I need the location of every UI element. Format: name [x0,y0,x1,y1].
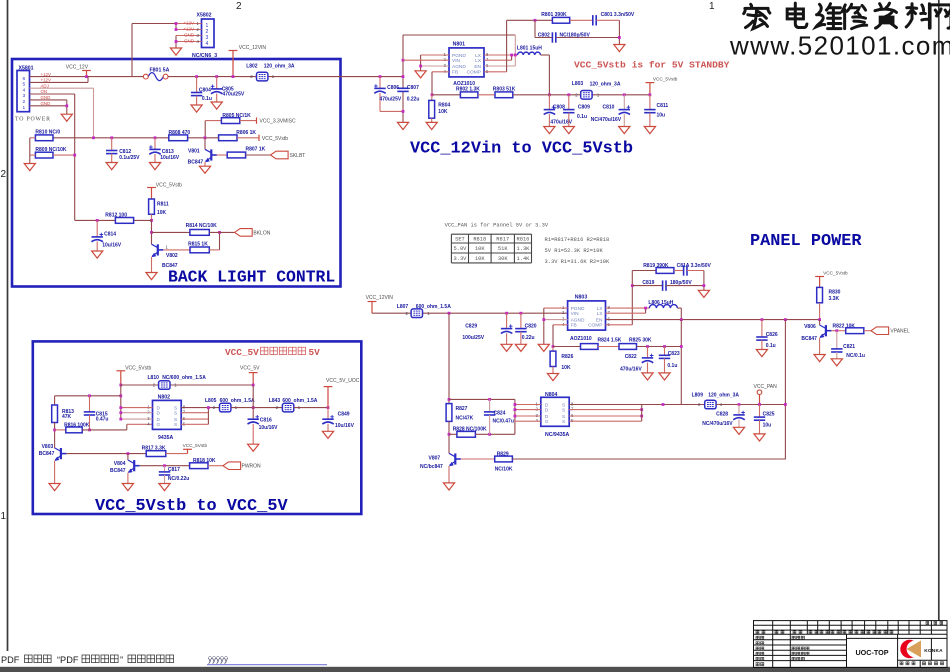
junction R827 top [448,398,451,401]
svg-text:5.0V: 5.0V [453,246,467,252]
net flag BKLON [235,229,253,237]
capacitor C825 10u [759,405,761,418]
svg-text:C820: C820 [525,324,537,330]
capacitor C805 470u/25V [215,75,218,78]
capacitor C802 NC/180p/50V [534,20,536,37]
ground V803 [49,484,60,491]
svg-text:0.1u: 0.1u [667,363,677,369]
svg-text:S: S [174,417,177,423]
resistor R813 47K [54,396,56,405]
svg-text:S: S [174,411,177,417]
resistor R811 10K [149,199,155,214]
junction X5802 pin4 [175,40,178,43]
svg-text:0.47u: 0.47u [96,416,109,422]
svg-text:LX: LX [597,306,604,312]
svg-text:0.1u: 0.1u [766,343,776,349]
junction C806 return [402,110,405,113]
svg-text:FB: FB [452,70,458,76]
svg-text:S: S [174,405,177,411]
wire 12V rail after fuse [168,76,403,78]
wire V802 collector [151,220,153,244]
svg-text:D: D [157,411,161,417]
capacitor C822 470u/16V [646,345,649,348]
svg-text:180p/50V: 180p/50V [670,280,692,286]
wire BKLON row [152,231,190,233]
junction V804 collector [127,452,130,455]
junction VPANEL drop [784,318,787,321]
junction C819 return [703,284,706,287]
svg-text:C828: C828 [716,411,728,417]
svg-text:10K: 10K [475,256,485,262]
wire RC row [55,395,121,397]
svg-text:SKLBT: SKLBT [290,153,306,159]
wire VCC_5V drop [252,385,254,419]
svg-text:VCC_5Vstb: VCC_5Vstb [183,443,208,448]
svg-text:C816: C816 [260,418,272,424]
svg-text:V806: V806 [804,324,816,330]
svg-text:ÿÿÿÿÿ: ÿÿÿÿÿ [208,655,228,664]
svg-text:470u/25V: 470u/25V [223,92,245,98]
svg-text:R824 1.5K: R824 1.5K [598,337,622,343]
svg-text:NC/0.1u: NC/0.1u [846,353,865,359]
svg-text:3.3V R1=31.6K R2=10K: 3.3V R1=31.6K R2=10K [545,259,610,265]
back light control block border [12,59,341,287]
junction VPANEL drop join [784,403,787,406]
junction R811 bottom [150,219,153,222]
svg-text:S: S [562,414,565,420]
ground V802 [146,273,157,280]
svg-text:C811: C811 [657,103,669,109]
title block left column labels [756,636,759,639]
svg-text:FB: FB [571,323,577,329]
svg-text:AGND: AGND [452,64,466,70]
wire N803 PGND [544,307,568,309]
svg-text:VCC_5Vstb: VCC_5Vstb [262,136,288,142]
svg-text:BC847: BC847 [162,263,178,269]
svg-text:X5802: X5802 [197,13,212,19]
svg-text:C806: C806 [387,85,399,91]
svg-text:VCC_5Vstb: VCC_5Vstb [125,365,151,371]
junction VIN rail [402,75,405,78]
svg-text:2: 2 [236,1,242,12]
svg-text:10K: 10K [157,210,167,216]
svg-text:9435A: 9435A [158,435,174,441]
svg-text:D: D [157,417,161,423]
net stub VCC_3.3VMISC [256,117,258,123]
footer underline [207,664,327,666]
svg-text:C823: C823 [668,351,680,357]
wire N803 COMP [606,324,633,326]
capacitor C810 NC/470u/16V [623,93,626,96]
svg-text:30K: 30K [498,256,508,262]
svg-text:VCC_5V: VCC_5V [240,365,260,371]
svg-text:VCC_5V_UOC: VCC_5V_UOC [326,378,360,384]
junction FB to output [680,345,683,348]
svg-text:GND: GND [184,39,195,44]
svg-text:120_ohm_3A: 120_ohm_3A [708,392,739,398]
sheet left frame line [7,0,9,651]
wire R805 branch [204,121,206,138]
svg-text:5V R1=52.3K R2=10K: 5V R1=52.3K R2=10K [545,248,604,254]
svg-text:L809: L809 [692,392,704,398]
svg-text:BKLON: BKLON [253,231,270,237]
KONKA logo [900,640,923,658]
wire X5801 ADJ [30,87,94,89]
svg-text:10u: 10u [763,422,772,428]
ground N803 [538,344,549,351]
svg-text:D: D [545,414,549,420]
junction VCC_5V [252,406,255,409]
junction R809 ON line [73,154,76,157]
net flag SKLBT [271,151,289,159]
wire VIN bus [402,35,404,88]
svg-text:UOC-TOP: UOC-TOP [855,648,888,657]
wire X5801 pin5 [30,81,89,83]
svg-text:VCC_3.3VMISC: VCC_3.3VMISC [260,118,297,124]
svg-text:51K: 51K [498,246,508,252]
svg-text:S: S [562,407,565,413]
junction R816 left [53,429,56,432]
svg-text:L803: L803 [572,81,584,87]
svg-text:D: D [545,407,549,413]
svg-text:R814 NC/10K: R814 NC/10K [186,223,218,229]
resistor R826 10K [552,347,554,352]
svg-text:R816: R816 [516,237,529,243]
wire gate network bottom [449,433,457,435]
svg-text:L802: L802 [246,63,258,69]
svg-text:5: 5 [23,82,26,88]
svg-text:C804: C804 [199,87,211,93]
wire N803 LX8 [606,307,650,309]
wire panel VIN row [372,312,568,314]
svg-text:L810: L810 [148,375,160,381]
svg-text:0.22u: 0.22u [407,97,420,103]
junction N803 LX [644,307,647,310]
ground V807 [443,483,454,490]
svg-text:10K: 10K [438,109,448,115]
svg-text:470u/25V: 470u/25V [380,97,402,103]
wire VIN pin2 [403,59,449,61]
junction VCC_12V [85,75,88,78]
junction FB divider [552,345,555,348]
svg-text:VIN: VIN [452,58,461,64]
svg-text:4: 4 [23,87,26,93]
svg-text:47K: 47K [62,414,72,420]
capacitor C824 NC/0.47u [489,399,491,412]
wire PGND pin1 [421,54,449,56]
svg-text:C807: C807 [407,85,419,91]
junction BKLON row [150,231,153,234]
junction VCC_12VIN [232,75,235,78]
svg-text:10u: 10u [657,112,666,118]
junction R830 rail [818,318,821,321]
svg-text:VPANEL: VPANEL [890,329,910,335]
capacitor C816 10u/16V [248,419,259,424]
wire LX pin7 [484,59,512,61]
svg-text:GND: GND [184,33,195,38]
wire gate jog [126,424,128,430]
wire gate network top [449,398,515,400]
ground R804 [426,122,437,129]
svg-text:R830: R830 [829,289,841,295]
wire COMP pin5 [484,71,507,73]
junction R827 bottom [448,433,451,436]
svg-text:PGND: PGND [452,53,466,59]
svg-text:C825: C825 [763,411,775,417]
junction L810 out [252,384,255,387]
ground V804 [122,484,133,491]
capacitor C815 0.47u [89,396,91,412]
wire D pin feed [120,385,122,419]
net flag VPANEL [871,327,889,335]
junction VIN pin2 [402,59,405,62]
svg-text:BC847: BC847 [39,451,55,457]
junction RC branch [119,394,122,397]
wire X5801 gnd pins [30,99,67,101]
svg-text:10u/16V: 10u/16V [259,425,279,431]
capacitor C813 10u/16V [154,136,157,139]
svg-text:C819: C819 [642,280,654,286]
resistor R827 NC/47K [446,404,452,422]
svg-text:AGND: AGND [571,317,585,323]
capacitor C811 10u [649,95,651,110]
wire dim row [75,219,152,221]
svg-text:S: S [562,402,565,408]
svg-text:R806 1K: R806 1K [236,130,256,136]
svg-text:EN: EN [596,317,603,323]
net stub VCC_5Vstb [258,135,260,141]
wire N804 gate pin [515,420,541,422]
svg-text:NC/9435A: NC/9435A [545,432,569,438]
capacitor C826 0.1u [761,318,764,321]
svg-text:V802: V802 [166,253,178,259]
svg-text:470u/16V: 470u/16V [620,366,642,372]
wire X5802 drop to 12V rail [131,24,133,77]
svg-text:NC/180p/50V: NC/180p/50V [560,33,591,39]
svg-text:C814: C814 [104,231,116,237]
svg-text:C829: C829 [465,324,477,330]
ground X5801 [61,114,72,121]
svg-text:COMP: COMP [588,323,602,329]
svg-text:0.1u: 0.1u [577,114,587,120]
wire VCC_PAN row [716,404,785,406]
svg-text:10u/16V: 10u/16V [160,155,180,161]
svg-text:AOZ1010: AOZ1010 [570,336,592,342]
svg-text:C810: C810 [603,104,615,110]
junction ADJ join [92,136,95,139]
sheet right frame line [938,0,940,621]
capacitor C828 NC/470u/16V [738,403,741,406]
capacitor C807 0.22u [397,88,408,91]
svg-text:10K: 10K [475,246,485,252]
capacitor C809 0.1u [567,93,570,96]
svg-text:BACK LIGHT CONTRL: BACK LIGHT CONTRL [168,268,335,287]
svg-text:6: 6 [23,76,26,82]
ground compensation [614,45,625,52]
svg-text:C809: C809 [578,104,590,110]
svg-text:4: 4 [206,41,209,47]
svg-text:10u/16V: 10u/16V [335,423,355,429]
svg-text:100u/25V: 100u/25V [462,335,484,341]
capacitor C808 470u/16V [548,95,550,110]
capacitor C817 NC/0.22u [163,464,166,467]
wire L810 row [121,384,253,386]
svg-text:0.1u: 0.1u [202,96,212,102]
svg-text:BC847: BC847 [188,159,204,165]
capacitor C819 180p/50V [632,285,662,287]
wire gate network right [514,399,516,434]
wire R810 R809 left [29,138,31,164]
junction C819 branch [631,284,634,287]
wire L806 output [677,307,681,309]
capacitor C829 100u/25V [505,312,508,315]
ground R826 [547,374,558,381]
svg-text:LX: LX [475,53,482,59]
svg-text:LX: LX [597,311,604,317]
junction C815 bottom [88,429,91,432]
svg-text:C81A 3.3n/50V: C81A 3.3n/50V [677,263,712,269]
junction source rail [662,403,665,406]
wire X5801 ON [30,93,75,95]
wires N804 source pins [569,409,642,411]
svg-text:NC/bc847: NC/bc847 [420,464,443,470]
svg-text:3.3V: 3.3V [453,256,467,262]
junction source rail [207,406,210,409]
junction R815 to BKLON [218,231,221,234]
junction R801 C802 branch [534,19,537,22]
junction VCC_PAN [758,403,761,406]
resistor R830 3.3K [817,287,823,302]
title block header row tiny text [756,631,759,634]
svg-text:C826: C826 [766,332,778,338]
svg-text:2: 2 [23,99,26,105]
svg-text:+12V: +12V [183,27,194,32]
wire X5802 +12V to bus [175,24,177,30]
svg-text:120_ohm_3A: 120_ohm_3A [590,81,621,87]
wire L801 to FB row [541,54,550,56]
svg-text:PDF: PDF [1,655,20,665]
svg-text:VCC_5Vstb is for 5V STANDBY: VCC_5Vstb is for 5V STANDBY [574,59,730,70]
svg-text:KONKA: KONKA [924,648,943,654]
5V standby block border [33,341,362,514]
svg-text:NC/0.47u: NC/0.47u [493,418,514,424]
svg-text:VCC_5Vstb: VCC_5Vstb [823,270,848,275]
wire N803 AGND [544,319,568,321]
junction C811 [649,93,652,96]
svg-text:1.4K: 1.4K [516,256,530,262]
svg-text:L843: L843 [269,398,281,404]
svg-text:C802: C802 [538,33,550,39]
svg-text:VCC_PAN: VCC_PAN [754,384,778,390]
sheet bottom bar [0,667,950,672]
svg-text:R827: R827 [456,406,468,412]
ground V801 [199,166,210,173]
watermark text 家电维修资料网 [744,4,770,28]
svg-text:G: G [545,419,549,425]
svg-text:10K: 10K [561,365,571,371]
wire N803 FB [553,324,568,326]
capacitor C804 0.1u [195,75,198,78]
svg-text:“PDF: “PDF [57,655,79,665]
svg-text:COMP: COMP [467,70,481,76]
wire control row [53,137,219,139]
svg-text:BC847: BC847 [110,468,126,474]
wire LX pin8 [484,54,518,56]
capacitor C823 0.1u [663,345,666,348]
svg-text:NC/470u/16V: NC/470u/16V [702,421,733,427]
svg-text:PGND: PGND [571,306,585,312]
junction N804 feed [448,312,451,315]
svg-text:V804: V804 [114,461,126,467]
svg-text:R826: R826 [561,354,573,360]
svg-text:VCC_12VIN: VCC_12VIN [366,295,394,301]
svg-text:S: S [174,422,177,428]
junction X5802 pin2 [175,28,178,31]
wire AGND pin3 [421,65,449,67]
svg-text:NC/CN6_3: NC/CN6_3 [192,53,217,59]
svg-text:5V: 5V [309,347,321,358]
svg-text:S: S [562,419,565,425]
capacitor C820 0.22u [520,312,523,315]
wire EN pin6 [484,65,515,67]
svg-text:1.3K: 1.3K [516,246,530,252]
junction C815 top [88,394,91,397]
svg-text:V801: V801 [188,148,200,154]
svg-text:VCC_5Vstb: VCC_5Vstb [653,77,678,82]
svg-text:VIN: VIN [571,311,580,317]
svg-text:VCC_5V: VCC_5V [225,347,259,358]
svg-text:C817: C817 [168,467,180,473]
svg-text:C801 3.3n/50V: C801 3.3n/50V [601,12,635,18]
wires N802 source pins [181,407,219,409]
svg-text:SET: SET [455,237,465,243]
svg-text:10u/16V: 10u/16V [102,243,122,249]
svg-text:VCC_12V: VCC_12V [66,65,89,71]
capacitor C814 10u/16V [96,219,99,222]
svg-text:V807: V807 [429,455,441,461]
svg-text:VCC_12VIN: VCC_12VIN [239,45,267,51]
wire 5V row [231,407,282,409]
svg-text:PANEL POWER: PANEL POWER [750,232,862,251]
junction LX pins [510,54,513,57]
svg-text:VCC_5Vstb to VCC_5V: VCC_5Vstb to VCC_5V [95,497,288,516]
svg-text:D: D [157,405,161,411]
junction L806 to rail [680,318,683,321]
svg-text:VCC_PAN is for Pannel 5V or 3.: VCC_PAN is for Pannel 5V or 3.3V [445,222,549,228]
resistor R804 10K [431,95,433,101]
wire FB row [553,346,581,348]
svg-text:R825 30K: R825 30K [629,337,652,343]
svg-text:”: ” [120,655,123,665]
svg-text:EN: EN [474,64,481,70]
svg-text:NC/0.22u: NC/0.22u [168,476,189,482]
wire source rail [569,404,705,406]
svg-text:V803: V803 [42,444,54,450]
svg-text:R804: R804 [438,103,450,109]
ground V806 [814,355,825,362]
svg-text:C821: C821 [843,344,855,350]
capacitor C806 470u/25V [379,75,382,78]
svg-text:N801: N801 [453,41,466,47]
capacitor C849 10u/16V [327,408,329,420]
svg-text:NC/47K: NC/47K [456,415,474,421]
junction L810 input [119,384,122,387]
wire EN loop top [403,34,515,36]
svg-text:VCC_5Vstb: VCC_5Vstb [156,182,182,188]
ground R809 [24,164,35,171]
svg-text:L807: L807 [397,304,409,310]
svg-text:1: 1 [1,511,7,522]
